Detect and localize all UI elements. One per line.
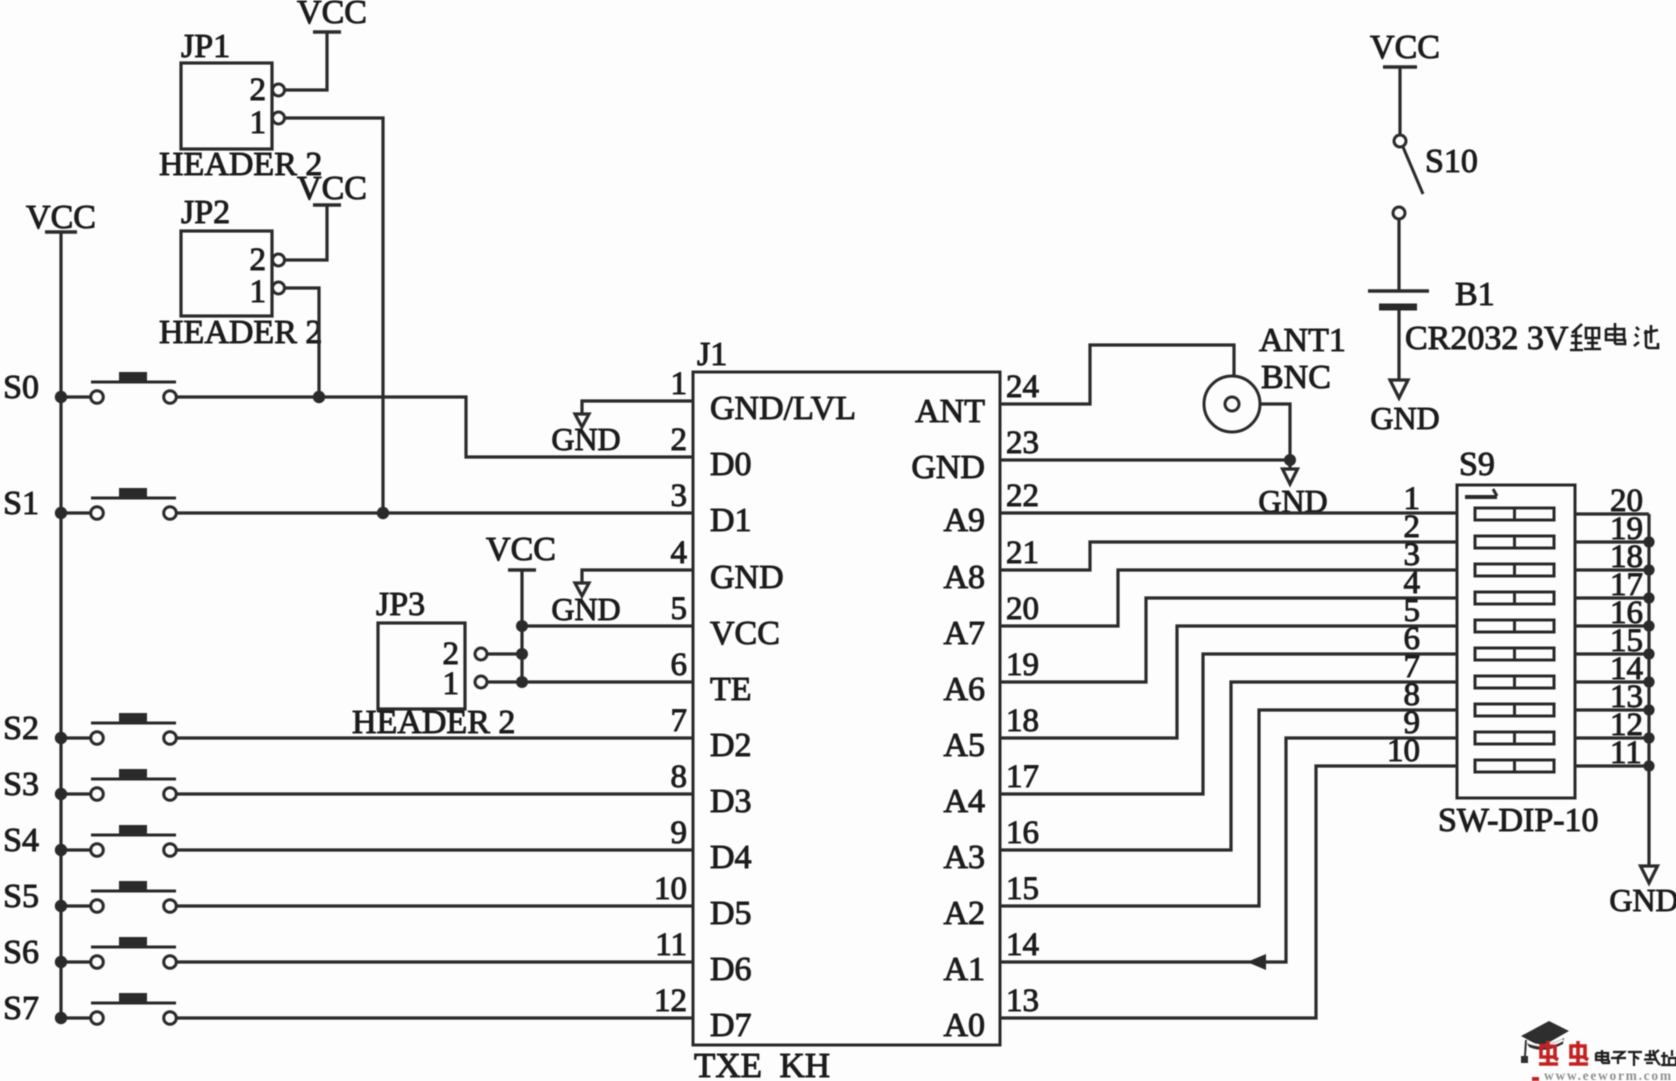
watermark text dianzi xiazai zhan bbox=[1596, 1050, 1676, 1066]
junction VCC rail / S7 bbox=[55, 1012, 67, 1024]
ground GND at battery B1 bbox=[1370, 380, 1439, 436]
pushbutton S5 bbox=[3, 878, 176, 915]
svg-text:21: 21 bbox=[1006, 535, 1039, 571]
IC J1 body bbox=[693, 372, 1000, 1045]
svg-text:17: 17 bbox=[1006, 759, 1039, 795]
svg-text:S5: S5 bbox=[3, 878, 39, 915]
svg-text:11: 11 bbox=[655, 927, 687, 963]
svg-text:5: 5 bbox=[671, 591, 688, 627]
svg-text:D7: D7 bbox=[710, 1007, 752, 1044]
svg-text:ANT1: ANT1 bbox=[1259, 322, 1346, 359]
svg-text:23: 23 bbox=[1006, 425, 1039, 461]
svg-text:A3: A3 bbox=[943, 839, 985, 876]
junction S9 pin18 / bus bbox=[1643, 564, 1654, 575]
svg-text:SW-DIP-10: SW-DIP-10 bbox=[1438, 802, 1599, 839]
wire VCC net to J1 pin5 VCC bbox=[522, 624, 693, 627]
svg-text:GND: GND bbox=[1609, 882, 1676, 918]
svg-text:S4: S4 bbox=[3, 822, 39, 859]
svg-text:24: 24 bbox=[1006, 369, 1039, 405]
svg-text:D0: D0 bbox=[710, 446, 752, 483]
svg-text:GND: GND bbox=[911, 449, 985, 486]
wire S10 to battery B1 bbox=[1397, 219, 1400, 290]
junction VCC rail / S5 bbox=[55, 900, 67, 912]
svg-text:A2: A2 bbox=[943, 895, 985, 932]
junction VCC rail / S6 bbox=[55, 956, 67, 968]
wire JP2 pin2 to VCC bbox=[285, 205, 328, 260]
pushbutton S6 bbox=[3, 934, 176, 971]
svg-text:A5: A5 bbox=[943, 727, 985, 764]
wire S6 to J1 pin11 D6 bbox=[177, 960, 694, 963]
wire S5 to J1 pin10 D5 bbox=[177, 904, 694, 907]
wire battery B1 to GND bbox=[1397, 311, 1400, 381]
svg-text:J1: J1 bbox=[697, 336, 727, 373]
wire S4 to J1 pin9 D4 bbox=[177, 848, 694, 851]
svg-text:18: 18 bbox=[1006, 703, 1039, 739]
junction VCC rail / S1 bbox=[55, 507, 67, 519]
svg-text:BNC: BNC bbox=[1261, 359, 1331, 396]
junction JP1 pin1 / S1 bbox=[377, 507, 389, 519]
J1 right pin names bbox=[911, 393, 985, 1044]
svg-text:3: 3 bbox=[671, 478, 688, 514]
svg-text:VCC: VCC bbox=[710, 615, 780, 652]
junction S9 pin13 / bus bbox=[1643, 704, 1654, 715]
svg-text:A4: A4 bbox=[943, 783, 985, 820]
arrowhead on A1 wire bbox=[1247, 954, 1266, 970]
connector JP1 (HEADER 2) bbox=[159, 28, 322, 183]
svg-text:D4: D4 bbox=[710, 839, 752, 876]
wire A6 J1 pin19 to S9 pin4 bbox=[1000, 598, 1457, 682]
wire S3 to J1 pin8 D3 bbox=[177, 792, 694, 795]
wire A2 J1 pin15 to S9 pin8 bbox=[1000, 710, 1457, 906]
wire J1 pin23 GND bbox=[1000, 458, 1290, 461]
wire VCC vertical at JP3 bbox=[520, 570, 523, 682]
svg-text:10: 10 bbox=[654, 871, 687, 907]
wire JP1 pin1 to S1 net bbox=[285, 118, 384, 513]
junction BNC / pin23 GND bbox=[1284, 454, 1296, 466]
power VCC at JP2 bbox=[297, 170, 367, 207]
pushbutton S3 bbox=[3, 766, 176, 803]
junction VCC rail / S0 bbox=[55, 391, 67, 403]
junction VCC rail / S3 bbox=[55, 788, 67, 800]
label CR2032 3V lithium cell bbox=[1405, 320, 1658, 357]
svg-text:S7: S7 bbox=[3, 990, 39, 1027]
J1 left pin numbers 1-12 bbox=[654, 366, 687, 1019]
power VCC symbol (left rail) bbox=[26, 199, 96, 236]
svg-text:GND/LVL: GND/LVL bbox=[710, 390, 856, 427]
ground GND at S9 bus bbox=[1609, 866, 1676, 918]
svg-text:A1: A1 bbox=[943, 951, 985, 988]
svg-text:D6: D6 bbox=[710, 951, 752, 988]
svg-text:1: 1 bbox=[250, 274, 267, 310]
wire JP2 pin1 to S0 net bbox=[285, 288, 320, 397]
J1 left pin names bbox=[710, 390, 856, 1044]
svg-text:4: 4 bbox=[671, 535, 688, 571]
junction S9 pin17 / bus bbox=[1643, 592, 1654, 603]
power VCC at JP1 bbox=[297, 0, 367, 32]
wire S9 right bus vertical bbox=[1647, 514, 1650, 866]
svg-text:GND: GND bbox=[710, 559, 784, 596]
S9 pin1 orientation mark bbox=[1465, 489, 1497, 497]
svg-text:GND: GND bbox=[1370, 400, 1439, 436]
wire A1 J1 pin14 to S9 pin9 bbox=[1000, 738, 1457, 962]
junction JP3 pin1 / TE net bbox=[516, 676, 528, 688]
ground GND at J1 pin1 bbox=[551, 401, 693, 457]
svg-text:JP1: JP1 bbox=[181, 28, 230, 65]
J1 right pin numbers 24-13 bbox=[1006, 369, 1039, 1019]
watermark graduation cap logo bbox=[1521, 1021, 1569, 1063]
wire JP3 pin1 to TE net bbox=[487, 680, 522, 683]
svg-text:S0: S0 bbox=[3, 369, 39, 406]
wire S0 to J1 pin2 D0 bbox=[177, 397, 694, 457]
svg-text:2: 2 bbox=[250, 242, 267, 278]
pushbutton S7 bbox=[3, 990, 176, 1027]
svg-text:VCC: VCC bbox=[297, 0, 367, 31]
junction VCC rail / S4 bbox=[55, 844, 67, 856]
svg-text:VCC: VCC bbox=[486, 531, 556, 568]
svg-text:14: 14 bbox=[1006, 927, 1039, 963]
svg-text:D2: D2 bbox=[710, 727, 752, 764]
svg-text:S6: S6 bbox=[3, 934, 39, 971]
svg-text:9: 9 bbox=[671, 815, 688, 851]
svg-text:JP2: JP2 bbox=[181, 194, 230, 231]
svg-text:S9: S9 bbox=[1459, 446, 1495, 483]
wire A9 J1 pin22 to S9 pin1 bbox=[1000, 511, 1457, 514]
svg-text:D5: D5 bbox=[710, 895, 752, 932]
S9 left pin numbers 1-10 bbox=[1387, 481, 1420, 769]
svg-text:19: 19 bbox=[1006, 647, 1039, 683]
svg-text:6: 6 bbox=[671, 647, 688, 683]
S9 right stub wires to bus bbox=[1575, 514, 1649, 766]
svg-text:D1: D1 bbox=[710, 502, 752, 539]
svg-text:HEADER 2: HEADER 2 bbox=[159, 314, 322, 351]
watermark text chongchong (red) bbox=[1539, 1041, 1588, 1064]
svg-text:S2: S2 bbox=[3, 710, 39, 747]
ground GND at J1 pin4 bbox=[551, 570, 693, 627]
pushbutton S1 bbox=[3, 485, 176, 522]
svg-text:15: 15 bbox=[1006, 871, 1039, 907]
wire S2 to J1 pin7 D2 bbox=[177, 736, 694, 739]
junction JP3 pin2 / VCC net bbox=[516, 648, 528, 660]
svg-text:TXE KH: TXE KH bbox=[694, 1046, 830, 1081]
wire A0 J1 pin13 to S9 pin10 bbox=[1000, 766, 1457, 1018]
svg-text:D3: D3 bbox=[710, 783, 752, 820]
battery B1 (CR2032 3V) bbox=[1368, 276, 1495, 313]
wire A8 J1 pin21 to S9 pin2 bbox=[1000, 542, 1457, 570]
connector JP2 (HEADER 2) bbox=[159, 194, 322, 351]
svg-text:A0: A0 bbox=[943, 1007, 985, 1044]
svg-text:16: 16 bbox=[1006, 815, 1039, 851]
pushbutton S4 bbox=[3, 822, 176, 859]
junction S9 pin16 / bus bbox=[1643, 620, 1654, 631]
wire VCC to S10 bbox=[1398, 67, 1401, 135]
svg-text:CR2032 3V: CR2032 3V bbox=[1405, 320, 1569, 357]
svg-text:20: 20 bbox=[1006, 591, 1039, 627]
svg-text:S10: S10 bbox=[1425, 143, 1478, 180]
wire S7 to J1 pin12 D7 bbox=[177, 1016, 694, 1019]
svg-text:2: 2 bbox=[250, 72, 267, 108]
svg-text:10: 10 bbox=[1387, 733, 1420, 769]
wire A7 J1 pin20 to S9 pin3 bbox=[1000, 570, 1457, 626]
svg-text:7: 7 bbox=[671, 703, 688, 739]
connector JP3 (HEADER 2) bbox=[352, 586, 515, 741]
svg-text:S3: S3 bbox=[3, 766, 39, 803]
power VCC at S10 bbox=[1370, 29, 1440, 67]
junction VCC / J1 pin5 bbox=[516, 620, 528, 632]
wire BNC to GND net bbox=[1260, 404, 1290, 460]
wire S1 to J1 pin3 D1 bbox=[177, 511, 694, 514]
junction S9 pin11 / bus bbox=[1643, 760, 1654, 771]
svg-text:www.eeworm.com: www.eeworm.com bbox=[1544, 1068, 1673, 1081]
svg-text:VCC: VCC bbox=[297, 170, 367, 207]
svg-text:JP3: JP3 bbox=[376, 586, 425, 623]
svg-text:HEADER 2: HEADER 2 bbox=[352, 704, 515, 741]
svg-text:12: 12 bbox=[654, 983, 687, 1019]
junction S9 pin12 / bus bbox=[1643, 732, 1654, 743]
svg-text:A9: A9 bbox=[943, 502, 985, 539]
wire J1 pin24 ANT to BNC bbox=[1000, 345, 1234, 404]
svg-text:1: 1 bbox=[671, 366, 688, 402]
svg-text:VCC: VCC bbox=[1370, 29, 1440, 66]
svg-text:8: 8 bbox=[671, 759, 688, 795]
S9 switch elements (10 rockers) bbox=[1475, 508, 1554, 772]
svg-text:GND: GND bbox=[551, 591, 620, 627]
wire A4 J1 pin17 to S9 pin6 bbox=[1000, 654, 1457, 794]
svg-text:ANT: ANT bbox=[915, 393, 985, 430]
junction JP2 pin1 / S0 bbox=[313, 391, 325, 403]
svg-text:A6: A6 bbox=[943, 671, 985, 708]
pushbutton S2 bbox=[3, 710, 176, 747]
ground GND at J1 pin23 bbox=[1258, 460, 1327, 519]
switch S10 bbox=[1393, 135, 1478, 219]
DIP switch S9 body (SW-DIP-10) bbox=[1457, 485, 1575, 798]
svg-text:13: 13 bbox=[1006, 983, 1039, 1019]
svg-text:TE: TE bbox=[710, 671, 752, 708]
svg-text:S1: S1 bbox=[3, 485, 39, 522]
svg-text:1: 1 bbox=[250, 105, 267, 141]
svg-text:B1: B1 bbox=[1455, 276, 1495, 313]
wire JP3 pin2 to VCC net bbox=[487, 652, 522, 655]
junction VCC rail / S2 bbox=[55, 732, 67, 744]
wire JP1 pin2 to VCC bbox=[285, 32, 328, 90]
svg-text:2: 2 bbox=[671, 422, 688, 458]
wire A5 J1 pin18 to S9 pin5 bbox=[1000, 626, 1457, 738]
antenna connector ANT1 BNC bbox=[1204, 322, 1346, 432]
junction S9 pin15 / bus bbox=[1643, 648, 1654, 659]
pushbutton S0 bbox=[3, 369, 176, 406]
wire TE net to J1 pin6 bbox=[522, 680, 693, 683]
S9 right pin numbers 20-11 bbox=[1610, 483, 1643, 771]
svg-text:GND: GND bbox=[551, 421, 620, 457]
power VCC at JP3 bbox=[486, 531, 556, 570]
svg-text:1: 1 bbox=[443, 666, 460, 702]
junction S9 pin19 / bus bbox=[1643, 536, 1654, 547]
svg-text:A8: A8 bbox=[943, 559, 985, 596]
wire VCC left rail vertical bbox=[59, 232, 62, 1018]
svg-text:22: 22 bbox=[1006, 478, 1039, 514]
wire A3 J1 pin16 to S9 pin7 bbox=[1000, 682, 1457, 850]
svg-text:A7: A7 bbox=[943, 615, 985, 652]
junction S9 pin14 / bus bbox=[1643, 676, 1654, 687]
